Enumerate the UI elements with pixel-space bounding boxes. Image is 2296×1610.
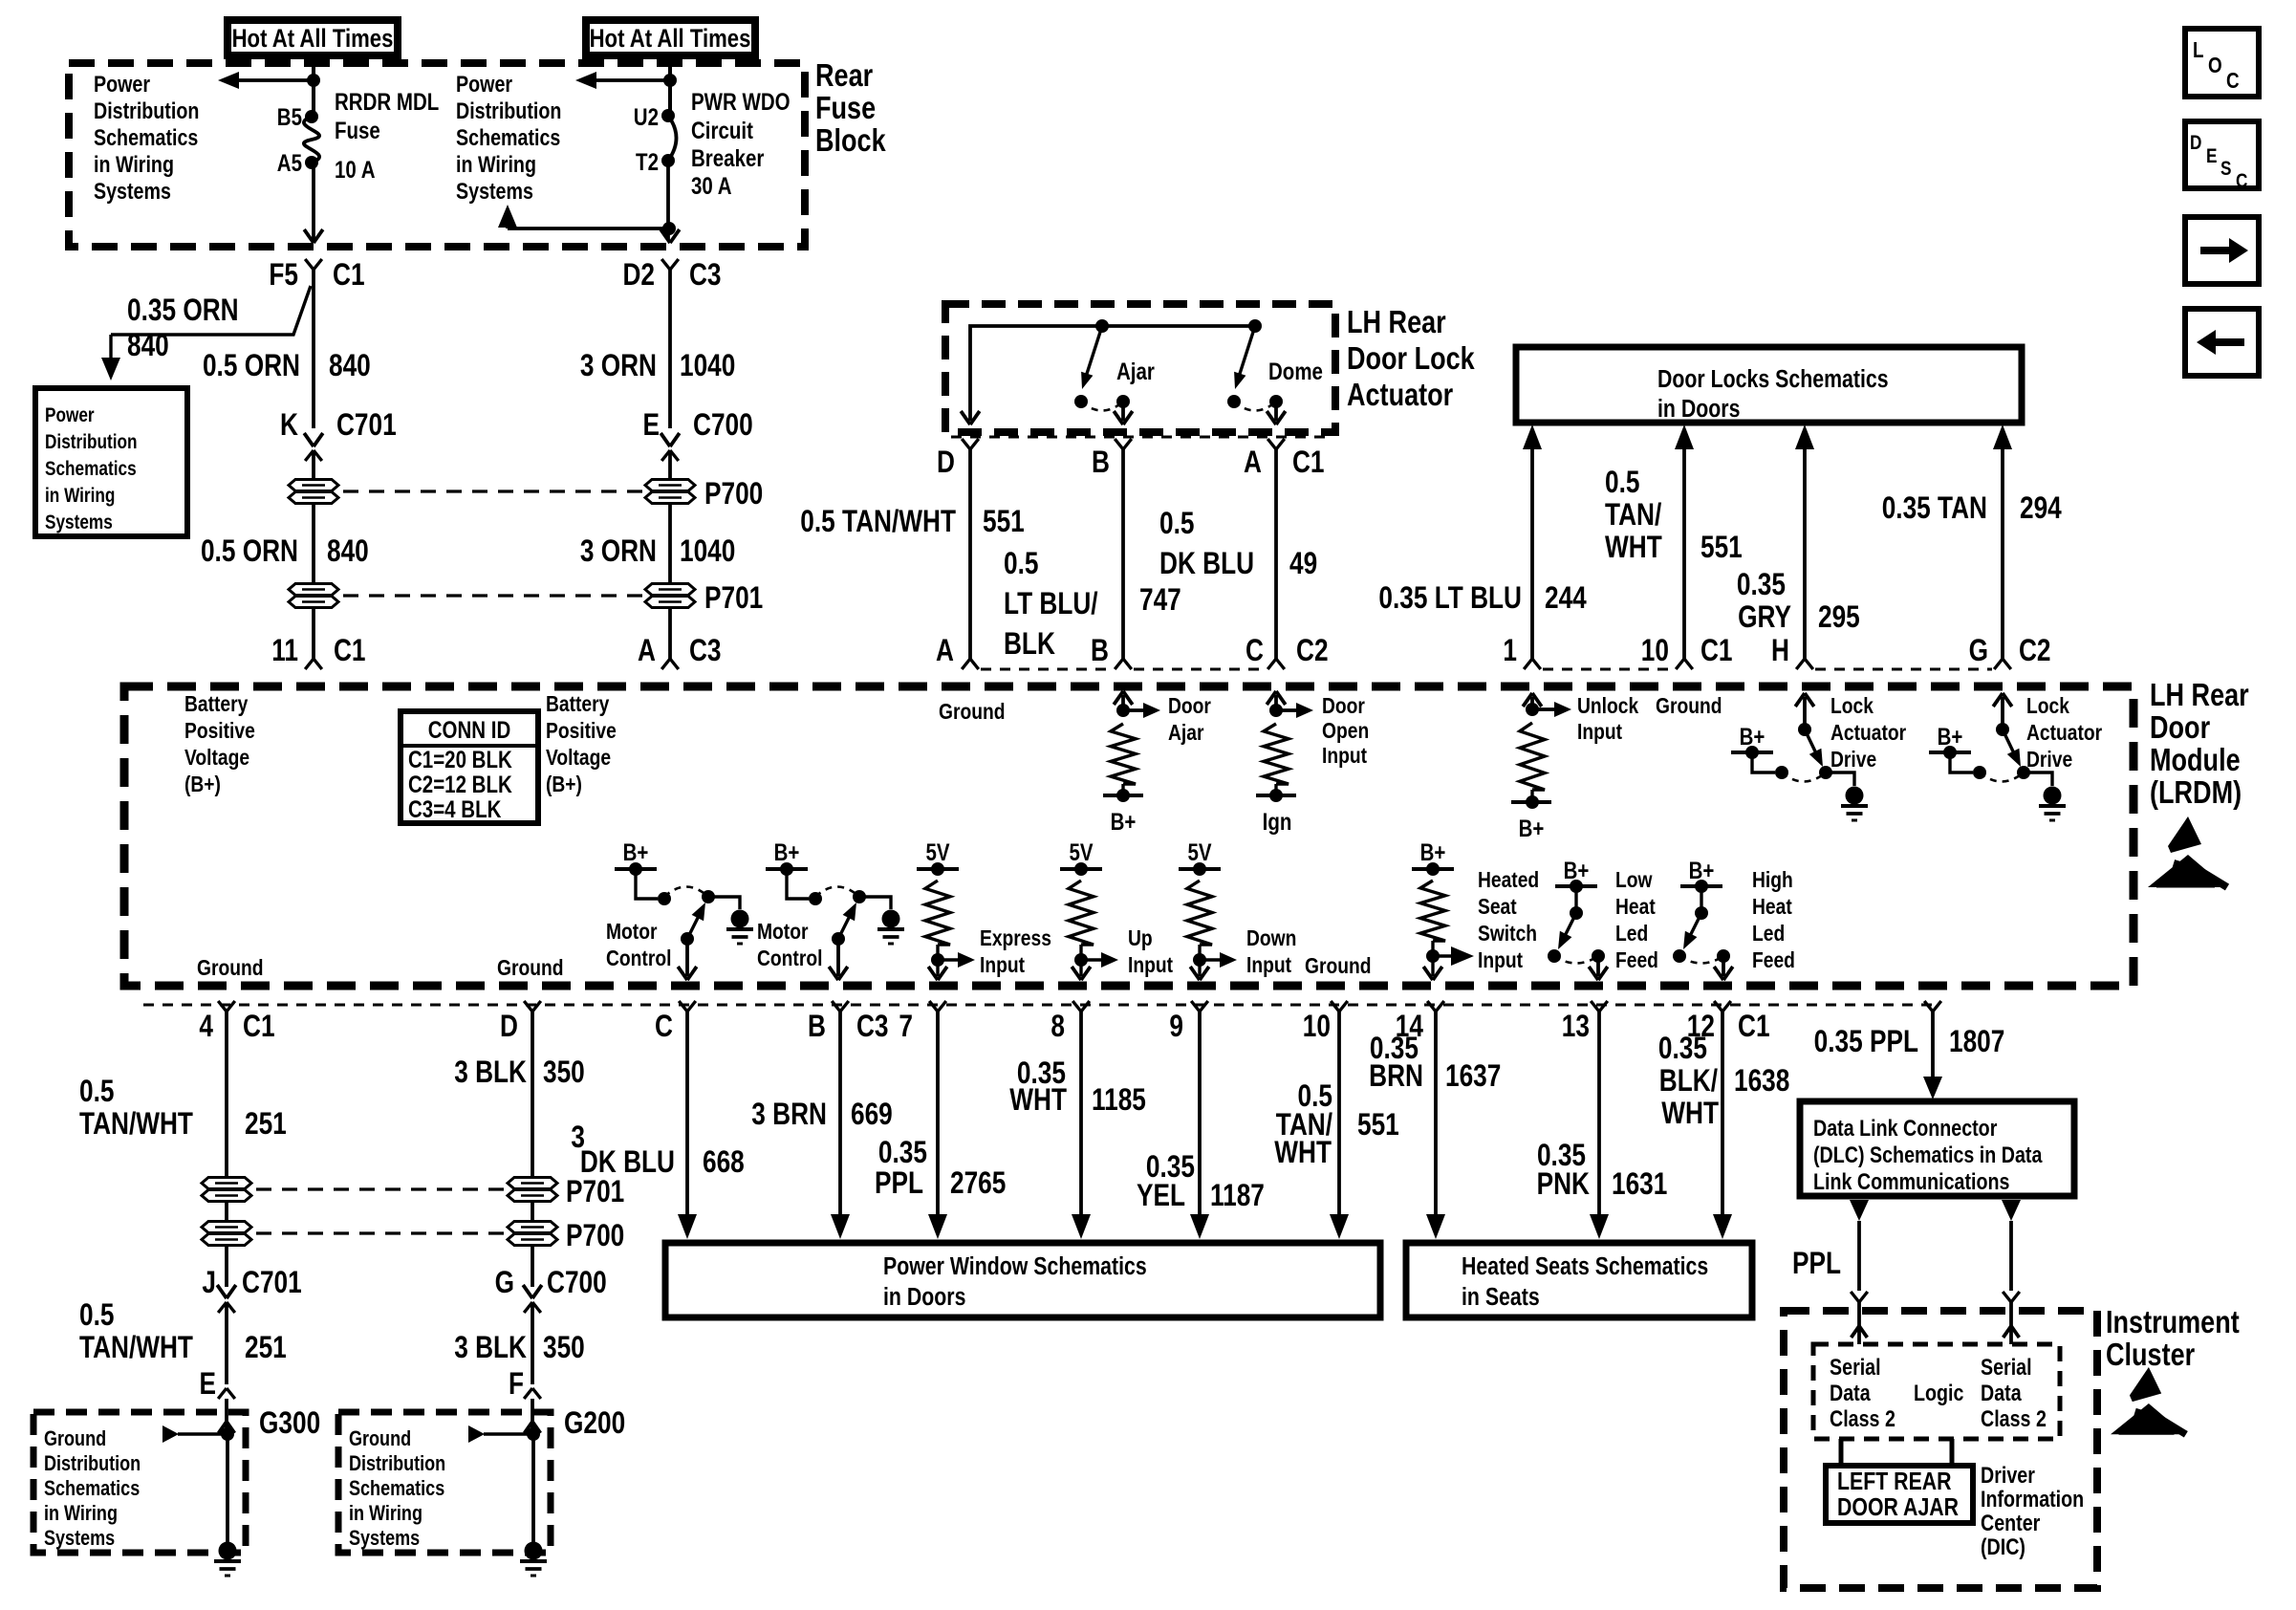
svg-text:747: 747 xyxy=(1139,584,1181,618)
label Ground (pin A top) xyxy=(939,699,1006,724)
wire logic to DIC left xyxy=(1839,1439,1844,1466)
label Battery Positive Voltage B+ (pin A) xyxy=(546,691,617,796)
svg-text:C1: C1 xyxy=(1700,635,1733,668)
door open input sensing resistor xyxy=(1264,691,1313,795)
svg-text:H: H xyxy=(1771,635,1789,668)
label Ground (pin D) xyxy=(497,955,564,980)
svg-text:4: 4 xyxy=(199,1011,213,1044)
svg-text:Led: Led xyxy=(1615,921,1648,946)
label Logic xyxy=(1914,1380,1963,1405)
svg-text:C701: C701 xyxy=(336,409,397,443)
module bottom pin 4 C1 xyxy=(199,1001,274,1044)
wire from Hot At All Times to circuit breaker xyxy=(668,55,672,116)
splice pass-through P701 (wire D) xyxy=(508,1176,624,1209)
motor control driver 2 xyxy=(766,838,904,980)
wire 0.5 ORN 840 mid segment xyxy=(312,505,315,583)
svg-text:PPL: PPL xyxy=(1792,1248,1841,1281)
svg-text:0.35 TAN: 0.35 TAN xyxy=(1882,492,1987,526)
svg-text:YEL: YEL xyxy=(1137,1180,1185,1213)
actuator connector dotted line xyxy=(951,436,1329,439)
label 3 DK BLU 668 xyxy=(571,1121,744,1180)
actuator pin D xyxy=(937,439,979,480)
label 0.5 TAN/WHT 551 (bottom) xyxy=(1274,1080,1399,1170)
svg-text:Express: Express xyxy=(980,925,1051,950)
svg-text:A: A xyxy=(1244,446,1262,480)
module top pin 1 xyxy=(1503,635,1540,669)
lock actuator drive switch (pin H) xyxy=(1731,693,1868,820)
wire 0.5 TAN/WHT 551 bottom xyxy=(1330,1012,1349,1239)
actuator pin A and C1 xyxy=(1244,439,1324,480)
svg-text:Circuit: Circuit xyxy=(691,117,753,143)
svg-text:Ground: Ground xyxy=(44,1427,106,1450)
CONN ID legend box xyxy=(401,711,538,823)
svg-text:PWR WDO: PWR WDO xyxy=(691,88,791,115)
svg-text:Switch: Switch xyxy=(1478,921,1537,946)
svg-text:in Doors: in Doors xyxy=(883,1283,965,1312)
instrument cluster dashed enclosure xyxy=(1784,1311,2097,1588)
module bottom pin B C3 xyxy=(808,1001,888,1044)
svg-text:WHT: WHT xyxy=(1274,1137,1332,1170)
svg-text:Input: Input xyxy=(980,952,1025,977)
svg-text:Motor: Motor xyxy=(757,919,809,944)
svg-text:Down: Down xyxy=(1246,925,1296,950)
svg-text:Systems: Systems xyxy=(44,1527,115,1550)
svg-text:Power Window Schematics: Power Window Schematics xyxy=(883,1252,1147,1281)
svg-text:BLK/: BLK/ xyxy=(1659,1065,1718,1099)
ground pin F xyxy=(509,1368,541,1402)
connector C700 pin E xyxy=(642,409,752,479)
svg-text:E: E xyxy=(642,409,660,443)
label Battery Positive Voltage B+ (pin 11) xyxy=(184,691,255,796)
svg-text:0.5 TAN/WHT: 0.5 TAN/WHT xyxy=(800,506,956,539)
text Power Distribution Schematics in Wiring Systems (fuse block left) xyxy=(94,71,199,204)
svg-text:Schematics: Schematics xyxy=(45,459,137,481)
ground G200 wire and symbol xyxy=(468,1399,547,1576)
svg-text:G200: G200 xyxy=(564,1407,625,1441)
svg-text:Heated: Heated xyxy=(1478,867,1539,892)
door open pull-up source Ign xyxy=(1256,789,1296,835)
wire from Hot At All Times to fuse RRDR MDL xyxy=(312,55,315,117)
svg-text:0.35 PPL: 0.35 PPL xyxy=(1814,1026,1918,1059)
svg-text:Input: Input xyxy=(1246,952,1291,977)
label 0.35 YEL 1187 xyxy=(1137,1151,1265,1213)
svg-text:in Wiring: in Wiring xyxy=(44,1502,118,1525)
svg-text:Serial: Serial xyxy=(1981,1354,2032,1380)
lock actuator drive switch (pin G) xyxy=(1929,693,2066,820)
svg-text:LH Rear: LH Rear xyxy=(2150,679,2249,713)
svg-text:Heat: Heat xyxy=(1752,894,1792,919)
rear fuse block dashed enclosure xyxy=(69,63,805,247)
svg-text:840: 840 xyxy=(329,350,371,383)
svg-text:3 BLK: 3 BLK xyxy=(454,1332,527,1365)
label 0.35 WHT 1185 xyxy=(1009,1057,1146,1118)
svg-text:DK BLU: DK BLU xyxy=(580,1146,675,1180)
svg-text:D: D xyxy=(2190,133,2202,155)
svg-text:Positive: Positive xyxy=(546,718,617,743)
circuit breaker PWR WDO 30A xyxy=(634,88,791,199)
svg-text:0.5: 0.5 xyxy=(1004,548,1038,581)
dome switch xyxy=(1227,319,1323,411)
svg-text:(B+): (B+) xyxy=(184,772,221,796)
module top pin H xyxy=(1771,635,1813,669)
label 0.5 LT BLU/BLK 747 xyxy=(1004,548,1181,662)
label Serial Data Class 2 (left) xyxy=(1830,1354,1895,1431)
up input resistor 5V xyxy=(1060,838,1118,980)
svg-text:Door: Door xyxy=(2150,711,2210,746)
actuator internal bus wire xyxy=(970,326,1255,421)
label 0.5 TAN/WHT 551 (vertical) xyxy=(1605,467,1743,565)
module bottom pin 9 xyxy=(1169,1001,1207,1044)
svg-text:B+: B+ xyxy=(1740,723,1765,750)
svg-text:TAN/: TAN/ xyxy=(1605,499,1661,533)
svg-text:Center: Center xyxy=(1981,1510,2041,1535)
connector C1 pin 11 at module xyxy=(271,635,365,669)
label G200 xyxy=(564,1407,625,1441)
label LH Rear Door Module LRDM xyxy=(2150,679,2249,811)
svg-text:Ground: Ground xyxy=(939,699,1006,724)
svg-text:295: 295 xyxy=(1818,601,1860,635)
svg-text:DK BLU: DK BLU xyxy=(1159,548,1254,581)
wire 3 ORN 1040 upper segment xyxy=(668,270,672,428)
wire 3 ORN 1040 mid segment xyxy=(668,505,672,583)
actuator pin B xyxy=(1092,439,1132,480)
svg-text:C2=12 BLK: C2=12 BLK xyxy=(408,771,512,797)
svg-text:C700: C700 xyxy=(547,1267,607,1300)
label High Heat Led Feed xyxy=(1752,867,1795,972)
svg-text:0.35: 0.35 xyxy=(1737,569,1786,602)
module top pin G and C2 xyxy=(1969,635,2051,669)
svg-text:S: S xyxy=(2220,159,2232,181)
wire 0.5 LT BLU/BLK 747 xyxy=(1121,449,1125,659)
wire 0.35 YEL 1187 xyxy=(1190,1012,1209,1239)
wire 0.5 TAN/WHT 551 actuator to module xyxy=(968,449,972,659)
wire 0.5 ORN 840 upper segment xyxy=(312,270,315,428)
svg-text:in Wiring: in Wiring xyxy=(45,486,115,508)
svg-text:P700: P700 xyxy=(566,1220,624,1253)
svg-text:O: O xyxy=(2208,54,2222,77)
svg-text:Ground: Ground xyxy=(1656,693,1722,718)
svg-text:Control: Control xyxy=(606,946,671,970)
wire 0.35 BLK/WHT 1638 xyxy=(1713,1012,1732,1239)
svg-text:Ground: Ground xyxy=(197,955,264,980)
svg-text:551: 551 xyxy=(1357,1109,1399,1142)
door ajar input sensing resistor xyxy=(1111,691,1160,795)
wire 0.35 PPL 1807 xyxy=(1923,1012,1942,1099)
svg-text:U2: U2 xyxy=(634,103,659,130)
svg-text:Door: Door xyxy=(1322,693,1365,718)
svg-text:1638: 1638 xyxy=(1734,1065,1789,1099)
svg-text:TAN/WHT: TAN/WHT xyxy=(79,1332,193,1365)
module bottom pin 13 xyxy=(1562,1001,1608,1044)
splice pass-through P701 (right wire) xyxy=(645,582,763,616)
svg-text:0.5: 0.5 xyxy=(79,1299,114,1333)
svg-text:Distribution: Distribution xyxy=(45,432,138,454)
svg-text:Distribution: Distribution xyxy=(456,98,561,123)
ground pin E xyxy=(200,1368,235,1402)
unlock pull-up source B+ xyxy=(1511,795,1551,841)
label 0.5 TAN/WHT 251 (lower) xyxy=(79,1299,287,1365)
svg-text:B: B xyxy=(808,1011,826,1044)
svg-text:Battery: Battery xyxy=(546,691,609,716)
svg-text:Logic: Logic xyxy=(1914,1380,1963,1405)
svg-text:C: C xyxy=(655,1011,673,1044)
LH rear door module dashed enclosure xyxy=(124,686,2134,986)
connector C701 pin J xyxy=(202,1246,301,1384)
label Unlock Input xyxy=(1577,693,1638,744)
junction box label Hot At All Times (right) xyxy=(586,20,755,55)
branch arrow to power distribution (right) xyxy=(575,72,677,89)
splice pass-through P701 (wire 4) xyxy=(202,1178,251,1202)
svg-text:L: L xyxy=(2193,38,2204,62)
svg-text:0.5: 0.5 xyxy=(1605,467,1639,500)
svg-text:B+: B+ xyxy=(1420,838,1446,865)
svg-text:Positive: Positive xyxy=(184,718,255,743)
wire 0.35 BRN 1637 xyxy=(1426,1012,1445,1239)
svg-text:30 A: 30 A xyxy=(691,172,732,199)
button previous page xyxy=(2185,309,2259,376)
label 0.35 PNK 1631 xyxy=(1537,1140,1668,1202)
express input resistor 5V xyxy=(917,838,975,980)
svg-text:Driver: Driver xyxy=(1981,1462,2035,1488)
label Lock Actuator Drive (pin G) xyxy=(2026,693,2103,772)
svg-text:C1=20 BLK: C1=20 BLK xyxy=(408,746,512,772)
dashed link P701 xyxy=(343,594,642,597)
svg-text:Ign: Ign xyxy=(1263,808,1292,835)
box Power Window Schematics in Doors xyxy=(665,1243,1380,1317)
svg-text:10: 10 xyxy=(1303,1011,1331,1044)
svg-text:C3: C3 xyxy=(856,1011,889,1044)
svg-text:11: 11 xyxy=(271,635,298,668)
svg-text:Schematics: Schematics xyxy=(44,1477,140,1500)
svg-text:C1: C1 xyxy=(1292,446,1325,480)
module bottom pin 7 xyxy=(899,1001,945,1044)
svg-text:669: 669 xyxy=(851,1099,893,1132)
label 0.35 BRN 1637 xyxy=(1369,1033,1501,1094)
svg-text:251: 251 xyxy=(245,1332,287,1365)
svg-text:Actuator: Actuator xyxy=(1830,720,1907,745)
wire 0.5 TAN/WHT 551 to door locks xyxy=(1675,424,1694,659)
breaker feedback arrow to schematics note xyxy=(498,161,676,235)
svg-text:Led: Led xyxy=(1752,921,1785,946)
label Ground (pin 10 top) xyxy=(1656,693,1722,718)
box Door Locks Schematics in Doors xyxy=(1516,347,2022,424)
ESD sensitive device symbol (module) xyxy=(2148,816,2227,887)
svg-text:Heated Seats Schematics: Heated Seats Schematics xyxy=(1462,1252,1708,1281)
heated seat switch input resistor xyxy=(1412,838,1474,980)
svg-text:Systems: Systems xyxy=(45,512,113,534)
svg-text:Lock: Lock xyxy=(1830,693,1874,718)
label Express Input xyxy=(980,925,1051,977)
svg-text:Battery: Battery xyxy=(184,691,248,716)
svg-text:C701: C701 xyxy=(242,1267,302,1300)
svg-text:Ajar: Ajar xyxy=(1116,358,1155,384)
fuse RRDR MDL 10A xyxy=(277,88,440,183)
svg-text:Hot At All Times: Hot At All Times xyxy=(590,25,751,54)
dashed link P700 lower xyxy=(256,1231,505,1234)
svg-text:0.35: 0.35 xyxy=(878,1137,927,1170)
svg-text:Module: Module xyxy=(2150,744,2241,778)
svg-text:Fuse: Fuse xyxy=(335,117,380,143)
label Motor Control 2 xyxy=(757,919,822,970)
label G300 xyxy=(259,1407,320,1441)
module bottom pin 8 xyxy=(1051,1001,1089,1044)
svg-text:350: 350 xyxy=(543,1056,585,1090)
svg-text:Voltage: Voltage xyxy=(546,745,611,770)
label Door Open Input xyxy=(1322,693,1369,768)
svg-text:Data: Data xyxy=(1830,1380,1871,1405)
svg-text:D2: D2 xyxy=(622,259,655,293)
low heat led feed switch xyxy=(1548,857,1608,980)
label 3 ORN 1040 (upper) xyxy=(580,350,736,383)
svg-text:5V: 5V xyxy=(1187,838,1212,865)
svg-text:C2: C2 xyxy=(1296,635,1329,668)
svg-text:Input: Input xyxy=(1128,952,1173,977)
motor control driver 1 xyxy=(615,838,753,980)
svg-text:LEFT REAR: LEFT REAR xyxy=(1837,1468,1952,1496)
svg-text:Systems: Systems xyxy=(456,178,533,204)
module top pin A xyxy=(936,635,979,669)
svg-text:Low: Low xyxy=(1615,867,1653,892)
svg-text:7: 7 xyxy=(899,1011,913,1044)
svg-text:G: G xyxy=(495,1267,514,1300)
svg-text:Door Locks Schematics: Door Locks Schematics xyxy=(1657,365,1889,394)
svg-text:(LRDM): (LRDM) xyxy=(2150,776,2242,811)
svg-text:Open: Open xyxy=(1322,718,1369,743)
label Door Ajar xyxy=(1168,693,1211,745)
svg-text:Ground: Ground xyxy=(497,955,564,980)
label 0.35 BLK/WHT 1638 xyxy=(1658,1033,1789,1131)
down input resistor 5V xyxy=(1179,838,1237,980)
svg-text:Data Link Connector: Data Link Connector xyxy=(1813,1115,1998,1141)
svg-text:Door: Door xyxy=(1168,693,1211,718)
label 0.35 PPL 1807 xyxy=(1814,1026,2005,1059)
dashed link P700 xyxy=(343,490,642,492)
svg-text:Hot At All Times: Hot At All Times xyxy=(232,25,394,54)
svg-text:P700: P700 xyxy=(704,478,763,511)
svg-text:C1: C1 xyxy=(243,1011,275,1044)
junction box label Hot At All Times (left) xyxy=(227,20,398,55)
svg-text:A: A xyxy=(936,635,954,668)
ground distribution box G200 xyxy=(338,1412,551,1553)
svg-text:G300: G300 xyxy=(259,1407,320,1441)
svg-text:9: 9 xyxy=(1169,1011,1183,1044)
svg-text:Schematics: Schematics xyxy=(349,1477,444,1500)
svg-text:P701: P701 xyxy=(704,582,763,616)
label Rear Fuse Block xyxy=(815,59,886,159)
button DESC xyxy=(2185,121,2259,192)
svg-text:in Wiring: in Wiring xyxy=(456,151,536,177)
svg-text:B+: B+ xyxy=(1111,808,1137,835)
svg-text:Unlock: Unlock xyxy=(1577,693,1638,718)
wire 3 BLK 350 upper xyxy=(531,1012,534,1177)
svg-text:Up: Up xyxy=(1128,925,1153,950)
ground G300 wire and symbol xyxy=(162,1399,241,1576)
svg-text:Ajar: Ajar xyxy=(1168,720,1204,745)
svg-text:PNK: PNK xyxy=(1537,1168,1590,1202)
svg-text:D: D xyxy=(937,446,955,480)
svg-text:TAN/WHT: TAN/WHT xyxy=(79,1108,193,1142)
module top connector dotted line H-G xyxy=(1815,668,1992,671)
svg-text:840: 840 xyxy=(127,330,169,363)
svg-text:0.5: 0.5 xyxy=(79,1076,114,1109)
svg-text:Class 2: Class 2 xyxy=(1830,1405,1895,1431)
label 0.5 ORN 840 (lower) xyxy=(201,535,369,569)
splice pass-through P700 (wire D) xyxy=(508,1202,624,1253)
label Lock Actuator Drive (pin H) xyxy=(1830,693,1907,772)
module top pin C and C2 xyxy=(1245,635,1328,669)
svg-text:0.35 LT BLU: 0.35 LT BLU xyxy=(1378,582,1522,616)
svg-text:668: 668 xyxy=(703,1146,745,1180)
wire 3 BRN 669 xyxy=(831,1012,850,1239)
svg-text:1807: 1807 xyxy=(1949,1026,2004,1059)
svg-text:C700: C700 xyxy=(693,409,753,443)
door ajar pull-up source B+ xyxy=(1103,789,1143,835)
dome switch output arrow xyxy=(1267,402,1286,424)
svg-text:Class 2: Class 2 xyxy=(1981,1405,2047,1431)
svg-text:244: 244 xyxy=(1545,582,1587,616)
svg-text:PPL: PPL xyxy=(875,1167,923,1201)
svg-text:551: 551 xyxy=(983,506,1025,539)
svg-text:Feed: Feed xyxy=(1615,947,1658,972)
label Up Input xyxy=(1128,925,1173,977)
svg-text:BRN: BRN xyxy=(1369,1060,1423,1094)
serial data wire left from DLC xyxy=(1850,1200,1869,1344)
svg-text:CONN ID: CONN ID xyxy=(428,716,511,743)
svg-text:294: 294 xyxy=(2020,492,2062,526)
svg-text:in Doors: in Doors xyxy=(1657,395,1740,424)
wire 0.35 PNK 1631 xyxy=(1590,1012,1609,1239)
svg-text:Power: Power xyxy=(45,405,95,427)
wire breaker output to block edge xyxy=(661,228,680,243)
label 3 ORN 1040 (lower) xyxy=(580,535,736,569)
module bottom pin PPL xyxy=(1924,1001,1941,1012)
svg-text:840: 840 xyxy=(327,535,369,569)
label Down Input xyxy=(1246,925,1296,977)
svg-text:Data: Data xyxy=(1981,1380,2022,1405)
label 0.35 PPL 2765 xyxy=(875,1137,1006,1201)
svg-text:T2: T2 xyxy=(636,148,659,175)
wire 0.5 TAN/WHT 251 upper xyxy=(225,1012,228,1177)
svg-text:Distribution: Distribution xyxy=(94,98,199,123)
wire 0.5 DK BLU 49 xyxy=(1274,449,1278,659)
svg-text:C: C xyxy=(2226,69,2240,93)
svg-text:RRDR MDL: RRDR MDL xyxy=(335,88,439,115)
svg-text:1631: 1631 xyxy=(1612,1168,1667,1202)
svg-text:0.5: 0.5 xyxy=(1159,508,1194,541)
wire 0.35 LT BLU 244 xyxy=(1523,424,1542,659)
svg-text:Ground: Ground xyxy=(349,1427,411,1450)
svg-text:Link Communications: Link Communications xyxy=(1813,1168,2009,1194)
svg-text:B+: B+ xyxy=(1689,857,1715,883)
svg-text:C: C xyxy=(1245,635,1264,668)
svg-text:3 ORN: 3 ORN xyxy=(580,350,657,383)
svg-text:A: A xyxy=(638,635,656,668)
svg-text:Input: Input xyxy=(1322,743,1367,768)
module top connector dotted line A-B-C xyxy=(981,668,1266,671)
svg-text:C1: C1 xyxy=(333,259,365,293)
svg-text:Schematics: Schematics xyxy=(94,124,198,150)
svg-text:0.5 ORN: 0.5 ORN xyxy=(201,535,298,569)
svg-text:3 BRN: 3 BRN xyxy=(751,1099,827,1132)
svg-text:P701: P701 xyxy=(566,1176,624,1209)
actuator ground lead arrow xyxy=(961,411,980,424)
svg-text:Dome: Dome xyxy=(1268,358,1323,384)
svg-text:C3: C3 xyxy=(689,259,722,293)
svg-text:LT BLU/: LT BLU/ xyxy=(1004,588,1098,621)
wire 0.35 GRY 295 xyxy=(1795,424,1814,659)
module bottom pin 14 xyxy=(1396,1001,1444,1044)
svg-text:49: 49 xyxy=(1289,548,1317,581)
